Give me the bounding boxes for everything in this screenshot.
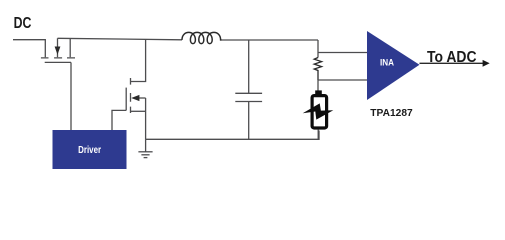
svg-text:To ADC: To ADC bbox=[427, 49, 477, 66]
wire to battery bbox=[317, 80, 319, 91]
wire gate Q1 to driver bbox=[70, 62, 72, 130]
svg-text:INA: INA bbox=[380, 56, 394, 67]
svg-text:Driver: Driver bbox=[78, 145, 101, 156]
op-amp U1 INA bbox=[367, 31, 420, 100]
ground bbox=[138, 139, 152, 157]
inductor L1 bbox=[182, 32, 222, 43]
transistor Q1 (high-side FET) bbox=[41, 38, 75, 62]
svg-text:DC: DC bbox=[14, 15, 32, 32]
driver block bbox=[53, 130, 127, 169]
wire INA input 1 bbox=[318, 52, 367, 54]
wire DC input bbox=[13, 40, 45, 58]
wire top rail left bbox=[58, 38, 183, 40]
transistor Q2 (low-side FET) bbox=[126, 78, 145, 113]
svg-text:TPA1287: TPA1287 bbox=[370, 108, 413, 119]
capacitor C1 bbox=[235, 40, 262, 139]
wire top rail right bbox=[222, 39, 319, 41]
wire INA input 2 bbox=[318, 79, 367, 81]
wire source Q2 to ground rail bbox=[145, 98, 147, 139]
wire drain Q2 to rail bbox=[131, 39, 146, 81]
wire bottom rail bbox=[146, 131, 319, 140]
wire gate Q2 to driver bbox=[112, 110, 126, 130]
wire INA output with arrowhead bbox=[420, 60, 490, 67]
wire right branch from rail bbox=[317, 40, 319, 58]
battery/load icon bbox=[303, 90, 334, 139]
resistor R1 (shunt) bbox=[314, 58, 321, 81]
